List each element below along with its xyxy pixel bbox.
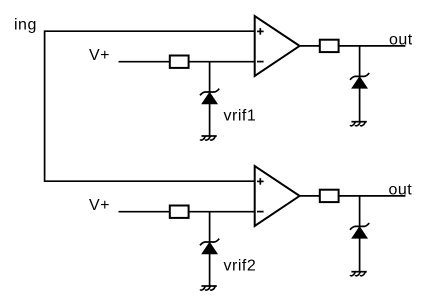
wire V+ to R3 xyxy=(119,211,171,213)
wire D1 to ground xyxy=(209,104,211,136)
wire R4 to out xyxy=(339,195,406,197)
wire junction to zener D3 xyxy=(209,212,211,243)
wire D3 to ground xyxy=(209,254,211,286)
svg-text:vrif1: vrif1 xyxy=(224,108,257,125)
ground under D4 xyxy=(350,272,367,276)
resistor R3 xyxy=(170,206,189,218)
wire ing net bottom horizontal to U2 + input xyxy=(45,180,255,182)
ground under D1 xyxy=(200,136,217,140)
ground under D2 xyxy=(350,122,367,126)
op-amp U2 xyxy=(255,166,300,226)
wire D4 to ground xyxy=(359,238,361,272)
wire junction to zener D4 xyxy=(359,196,361,227)
svg-text:out: out xyxy=(389,182,413,199)
resistor R1 xyxy=(170,56,189,68)
svg-text:ing: ing xyxy=(14,17,37,34)
wire ing net top horizontal to U1 + input xyxy=(45,30,255,32)
resistor R4 xyxy=(320,190,339,202)
zener D1 (vrif1) xyxy=(200,89,219,104)
wire U2 output to R4 xyxy=(300,195,320,197)
resistor R2 xyxy=(320,40,339,52)
zener D4 xyxy=(350,223,369,238)
op-amp U1 xyxy=(255,16,300,76)
svg-text:out: out xyxy=(389,32,413,49)
wire R1 to U1 - input xyxy=(189,61,255,63)
wire junction to zener D1 xyxy=(209,62,211,93)
wire R3 to U2 - input xyxy=(189,211,255,213)
wire V+ to R1 xyxy=(119,61,171,63)
wire R2 to out xyxy=(339,45,406,47)
ground under D3 xyxy=(200,286,217,290)
zener D2 xyxy=(350,73,369,88)
wire junction to zener D2 xyxy=(359,46,361,77)
svg-text:vrif2: vrif2 xyxy=(224,258,257,275)
svg-text:V+: V+ xyxy=(89,47,110,64)
svg-text:V+: V+ xyxy=(89,197,110,214)
wire ing net left vertical xyxy=(44,30,46,182)
zener D3 (vrif2) xyxy=(200,239,219,254)
wire D2 to ground xyxy=(359,88,361,122)
wire U1 output to R2 xyxy=(300,45,320,47)
